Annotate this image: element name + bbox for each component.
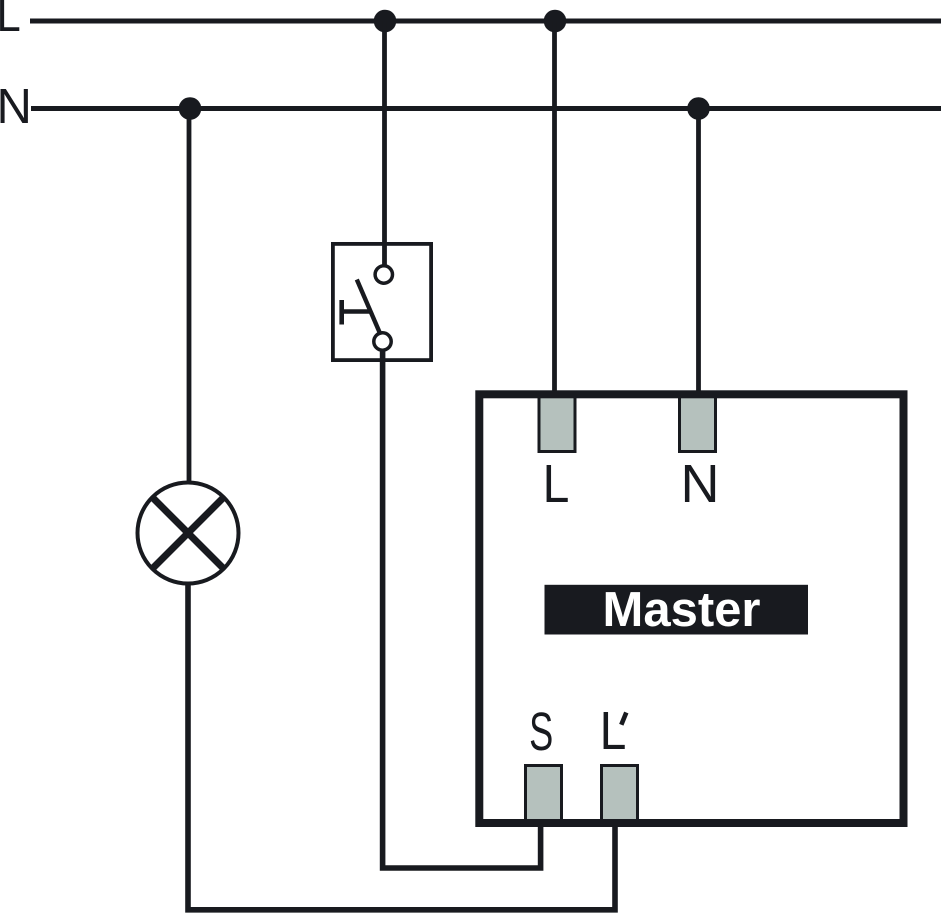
pin label L (inside master) xyxy=(543,453,570,513)
terminal L (gray pad, top) xyxy=(539,392,575,452)
svg-text:S: S xyxy=(529,701,553,762)
svg-text:N: N xyxy=(681,454,720,514)
push-button switch S1: upper contact xyxy=(375,266,392,283)
junction dot on L at switch feed xyxy=(374,10,397,33)
push-button switch S1: lower contact xyxy=(374,333,391,350)
terminal N (gray pad, top) xyxy=(680,392,716,452)
svg-text:L: L xyxy=(600,700,627,760)
wire: lamp to master terminal L' (down, right, up) xyxy=(188,583,615,910)
wire: N bus to lamp xyxy=(187,109,192,485)
pin label N (inside master) xyxy=(681,454,720,514)
junction dot on N at master N feed xyxy=(687,97,710,120)
svg-text:L: L xyxy=(543,453,570,513)
pin label L' (inside master) xyxy=(600,700,627,760)
net label N (left) xyxy=(0,80,32,134)
svg-text:Master: Master xyxy=(603,583,761,637)
lamp E1: cross stroke 2 xyxy=(152,497,225,570)
wire: L bus to master terminal L xyxy=(552,21,557,394)
lamp E1: cross stroke 1 xyxy=(152,497,225,570)
lamp E1: body circle xyxy=(138,483,239,584)
junction dot on L at master L feed xyxy=(544,10,567,33)
push-button switch S1: lever xyxy=(357,280,381,335)
wire: L bus line xyxy=(30,19,941,24)
pin label L' apostrophe xyxy=(621,713,626,725)
push-button switch S1: actuator cap xyxy=(339,300,344,325)
wire: N bus to master terminal N xyxy=(696,109,701,395)
master unit U1: enclosure box xyxy=(479,394,903,823)
wire: switch to master terminal S (down, right, up) xyxy=(383,350,541,868)
push-button switch S1: enclosure box xyxy=(333,244,431,360)
terminal S (gray pad, bottom) xyxy=(526,766,562,824)
wire: N bus line xyxy=(31,106,941,111)
terminal L' (gray pad, bottom) xyxy=(602,766,638,824)
Master name plate (black bar) xyxy=(545,585,809,635)
svg-text:L: L xyxy=(0,0,21,42)
pin label S (inside master) xyxy=(529,701,553,762)
net label L (top-left) xyxy=(0,0,21,42)
junction dot on N at lamp feed xyxy=(179,97,202,120)
svg-text:N: N xyxy=(0,80,32,134)
wire: L bus to switch xyxy=(382,21,387,265)
push-button switch S1: actuator stem xyxy=(342,309,372,314)
